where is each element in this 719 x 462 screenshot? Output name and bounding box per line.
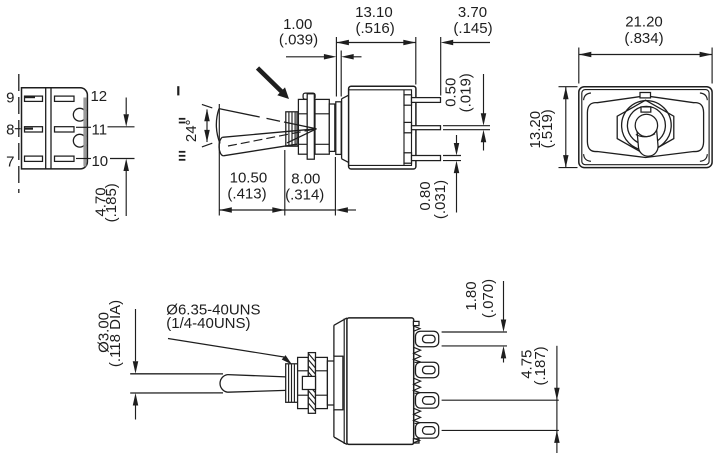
- svg-text:(.314): (.314): [285, 186, 324, 203]
- svg-text:13.10: 13.10: [355, 4, 393, 21]
- svg-text:9: 9: [6, 89, 14, 106]
- svg-text:7: 7: [6, 153, 14, 170]
- svg-text:(.834): (.834): [624, 30, 663, 47]
- svg-text:12: 12: [90, 88, 107, 105]
- svg-text:(.118 DIA): (.118 DIA): [107, 300, 124, 367]
- svg-text:1.80: 1.80: [463, 281, 480, 310]
- svg-text:(.019): (.019): [457, 73, 474, 112]
- svg-text:(.516): (.516): [356, 20, 395, 37]
- svg-text:(1/4-40UNS): (1/4-40UNS): [166, 315, 250, 332]
- svg-text:(.187): (.187): [532, 346, 549, 385]
- svg-text:24°: 24°: [183, 119, 200, 142]
- svg-text:21.20: 21.20: [625, 13, 663, 30]
- svg-text:(.039): (.039): [279, 31, 318, 48]
- svg-text:(.185): (.185): [103, 183, 120, 222]
- svg-text:10.50: 10.50: [230, 169, 268, 186]
- svg-text:8: 8: [6, 122, 14, 139]
- svg-text:(.519): (.519): [539, 109, 556, 148]
- svg-text:11: 11: [92, 121, 108, 138]
- svg-text:3.70: 3.70: [458, 4, 487, 21]
- svg-text:(.145): (.145): [453, 20, 492, 37]
- svg-text:(.070): (.070): [480, 279, 497, 318]
- svg-text:(.031): (.031): [432, 180, 449, 219]
- svg-text:(.413): (.413): [227, 185, 266, 202]
- svg-text:8.00: 8.00: [291, 171, 320, 188]
- svg-text:10: 10: [91, 153, 108, 170]
